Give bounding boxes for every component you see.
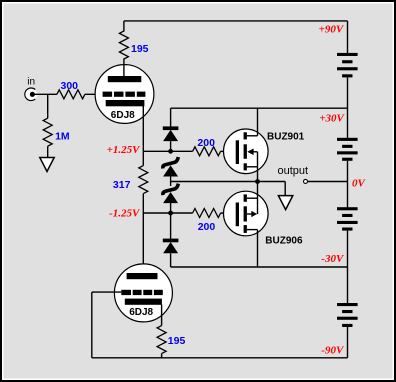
node output junction <box>255 179 260 184</box>
transistor Q2 channel <box>244 194 247 201</box>
zener D2 <box>163 157 178 169</box>
transistor Q2 drain stub <box>247 229 258 231</box>
triode U1 6DJ8 envelope <box>95 65 154 124</box>
transistor Q2 source stub <box>247 197 258 199</box>
diode D1 <box>163 126 179 130</box>
svg-text:200: 200 <box>198 221 216 233</box>
node in terminal <box>25 88 37 100</box>
resistor 317 <box>139 166 148 194</box>
svg-text:output: output <box>278 165 309 177</box>
wire -30V rail <box>171 266 348 268</box>
transistor Q1 drain stub <box>247 135 258 137</box>
wire input to R300 <box>35 93 57 95</box>
wire 195 to bottom rail <box>161 354 163 358</box>
wire R300 to tube grid <box>85 93 103 95</box>
triode U1 cathode <box>106 100 145 106</box>
wire 1M branch <box>47 94 49 118</box>
wire right rail segment 4 <box>347 231 349 304</box>
transistor Q1 channel <box>244 132 247 139</box>
wire D1 to node <box>170 141 172 151</box>
transistor Q2 gate bar <box>236 203 239 227</box>
wire U1 cathode lead <box>142 106 144 151</box>
wire 317 leads <box>142 151 144 165</box>
svg-text:+1.25V: +1.25V <box>107 144 142 156</box>
wire between zeners <box>170 176 172 186</box>
wire R200 to Q2 gate <box>221 212 236 214</box>
wire right rail segment 2 <box>347 77 349 138</box>
resistor 195 lower <box>157 326 166 354</box>
transistor Q2 body arrow <box>247 213 252 215</box>
svg-text:300: 300 <box>61 80 79 92</box>
resistor 200 lower <box>193 209 221 218</box>
triode U1 grid <box>103 92 113 97</box>
battery B4 <box>337 303 358 306</box>
node +1.25V junction <box>168 149 173 154</box>
svg-text:-30V: -30V <box>321 253 345 265</box>
svg-text:195: 195 <box>131 43 149 55</box>
ground output <box>278 196 292 210</box>
wire node to D4 <box>170 213 172 239</box>
battery B3 <box>337 207 358 210</box>
wire 195 to top rail <box>123 21 125 32</box>
wire output node <box>171 181 258 183</box>
wire top rail <box>124 20 348 22</box>
transistor Q1 BUZ901 envelope <box>224 129 269 174</box>
wire to output ground <box>258 181 286 183</box>
svg-text:200: 200 <box>197 137 215 149</box>
svg-text:1M: 1M <box>55 131 70 143</box>
transistor Q1 gate bar <box>236 140 239 164</box>
wire U2 cathode lead <box>161 305 163 326</box>
wire 1M to ground <box>47 146 49 157</box>
wire +1.25V to R200 <box>143 150 192 152</box>
transistor Q1 source stub <box>247 166 258 168</box>
svg-text:+30V: +30V <box>319 112 345 124</box>
svg-text:195: 195 <box>168 335 186 347</box>
wire right rail segment 1 <box>347 21 349 53</box>
svg-text:317: 317 <box>113 179 131 191</box>
wire right rail segment 3 <box>347 161 349 208</box>
triode U2 grid <box>121 290 131 295</box>
transistor Q2 BUZ906 envelope <box>224 191 269 236</box>
wire right rail segment 5 <box>347 327 349 358</box>
wire bottom rail <box>92 357 348 359</box>
transistor Q1 body arrow <box>251 151 258 153</box>
triode U2 plate <box>127 273 158 279</box>
svg-text:+90V: +90V <box>319 24 345 36</box>
battery B1 <box>337 53 358 56</box>
resistor 1M <box>43 118 52 146</box>
resistor 200 upper <box>193 147 221 156</box>
resistor 300 <box>57 90 85 99</box>
wire D4 to -30V rail <box>170 253 172 267</box>
svg-text:6DJ8: 6DJ8 <box>111 110 135 121</box>
triode U2 cathode <box>125 299 162 305</box>
wire U1 plate lead <box>123 59 125 78</box>
diode D4 <box>163 239 179 243</box>
node output terminal <box>304 179 308 183</box>
triode U1 plate <box>108 76 142 82</box>
node -1.25V junction <box>168 211 173 216</box>
wire -1.25V to R200 <box>143 212 192 214</box>
wire U2 grid lead <box>92 291 122 293</box>
resistor 195 upper <box>119 31 128 59</box>
wire terminal to 0V rail <box>308 181 348 183</box>
battery B2 <box>337 138 358 141</box>
wire R200 to Q1 gate <box>221 150 236 152</box>
svg-text:BUZ901: BUZ901 <box>267 131 305 142</box>
svg-text:-90V: -90V <box>321 344 345 356</box>
triode U2 6DJ8 envelope <box>114 264 172 322</box>
svg-text:BUZ906: BUZ906 <box>265 235 303 246</box>
zener D3 <box>163 184 178 196</box>
svg-text:0V: 0V <box>352 177 367 189</box>
svg-text:6DJ8: 6DJ8 <box>129 307 153 318</box>
ground input <box>40 158 54 172</box>
wire D3 to node <box>170 202 172 213</box>
svg-text:in: in <box>27 77 35 88</box>
wire +30V rail <box>171 107 348 109</box>
wire diode chain top <box>170 108 172 127</box>
svg-text:-1.25V: -1.25V <box>109 208 141 220</box>
